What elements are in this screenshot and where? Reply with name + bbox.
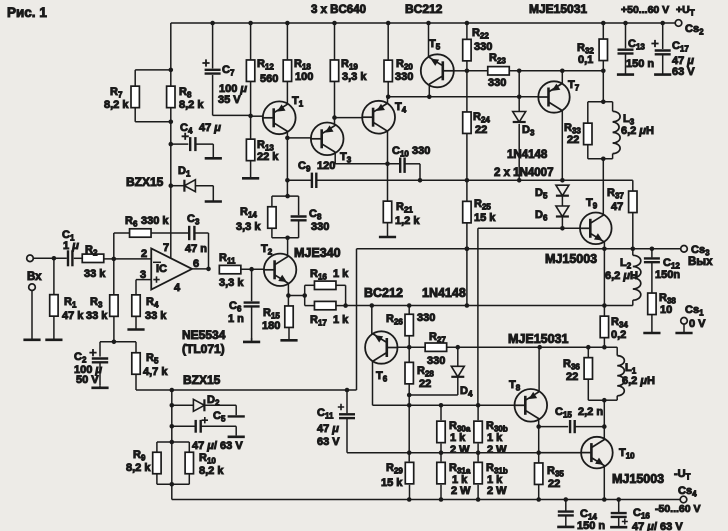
svg-text:22: 22 — [566, 371, 578, 383]
svg-text:1 n: 1 n — [228, 313, 244, 325]
svg-text:330 k: 330 k — [141, 215, 169, 227]
svg-text:120: 120 — [317, 160, 335, 172]
svg-text:MJE15031: MJE15031 — [508, 332, 569, 346]
svg-text:150 n: 150 n — [626, 58, 654, 70]
svg-text:100: 100 — [295, 71, 313, 83]
svg-text:15 k: 15 k — [381, 477, 403, 489]
svg-text:1N4148: 1N4148 — [422, 286, 466, 300]
svg-text:Вых: Вых — [688, 256, 713, 268]
svg-text:MJ15003: MJ15003 — [545, 252, 597, 266]
svg-text:6,2 μH: 6,2 μH — [622, 375, 655, 387]
svg-text:1,2 k: 1,2 k — [395, 215, 420, 227]
svg-text:2 W: 2 W — [450, 444, 470, 456]
svg-text:150 n: 150 n — [577, 520, 605, 531]
svg-text:8,2 k: 8,2 k — [179, 99, 204, 111]
svg-text:BZX15: BZX15 — [183, 373, 221, 387]
svg-text:47: 47 — [611, 201, 623, 213]
svg-text:1 k: 1 k — [487, 432, 503, 444]
svg-text:BC212: BC212 — [405, 2, 443, 16]
svg-text:MJE15031: MJE15031 — [529, 2, 587, 16]
svg-text:50 V: 50 V — [76, 374, 99, 386]
svg-text:Рис. 1: Рис. 1 — [7, 5, 47, 20]
svg-text:2 W: 2 W — [487, 444, 507, 456]
svg-text:47 n: 47 n — [185, 243, 207, 255]
svg-text:8,2 k: 8,2 k — [199, 465, 224, 477]
svg-text:33 k: 33 k — [86, 310, 108, 322]
svg-text:0 V: 0 V — [689, 318, 706, 330]
svg-text:Вх: Вх — [27, 271, 42, 283]
svg-text:BZX15: BZX15 — [126, 175, 164, 189]
svg-text:3,3 k: 3,3 k — [342, 71, 367, 83]
svg-text:3: 3 — [140, 269, 146, 281]
svg-text:3 x BC640: 3 x BC640 — [311, 4, 366, 16]
svg-text:22: 22 — [548, 478, 560, 490]
svg-text:1 k: 1 k — [333, 314, 349, 326]
svg-text:22: 22 — [567, 134, 579, 146]
svg-text:BC212: BC212 — [364, 286, 403, 300]
svg-text:10: 10 — [660, 304, 672, 316]
svg-text:150n: 150n — [655, 269, 680, 281]
svg-text:8,2 k: 8,2 k — [126, 462, 151, 474]
svg-text:330: 330 — [395, 71, 413, 83]
svg-text:(TL071): (TL071) — [182, 342, 225, 356]
svg-text:0,1: 0,1 — [578, 54, 593, 66]
svg-text:MJ15003: MJ15003 — [612, 472, 664, 486]
svg-text:4: 4 — [174, 282, 181, 294]
svg-text:330: 330 — [488, 77, 506, 89]
svg-text:47 μ: 47 μ — [317, 423, 339, 435]
svg-text:33 k: 33 k — [145, 310, 167, 322]
svg-text:2,2 n: 2,2 n — [578, 406, 603, 418]
svg-text:-50...60 V: -50...60 V — [655, 503, 701, 515]
svg-text:22: 22 — [419, 378, 431, 390]
svg-text:MJE340: MJE340 — [294, 246, 341, 260]
svg-text:47 k: 47 k — [62, 310, 84, 322]
svg-text:2 W: 2 W — [451, 485, 471, 497]
svg-text:4,7 k: 4,7 k — [143, 366, 168, 378]
svg-text:330: 330 — [427, 355, 445, 367]
svg-text:IC: IC — [156, 263, 167, 275]
svg-text:2 x 1N4007: 2 x 1N4007 — [494, 167, 553, 179]
svg-text:1 μ: 1 μ — [63, 240, 79, 252]
svg-text:+50...60 V: +50...60 V — [621, 4, 669, 16]
svg-text:6: 6 — [193, 258, 199, 270]
svg-text:2: 2 — [141, 248, 147, 260]
svg-text:1 k: 1 k — [450, 432, 466, 444]
svg-text:8,2 k: 8,2 k — [104, 99, 129, 111]
svg-text:1N4148: 1N4148 — [507, 149, 548, 161]
svg-text:2 W: 2 W — [487, 485, 507, 497]
svg-text:180: 180 — [262, 320, 280, 332]
svg-text:3,3 k: 3,3 k — [219, 277, 244, 289]
svg-text:6,2 μH: 6,2 μH — [621, 125, 654, 137]
svg-text:63 V: 63 V — [317, 436, 340, 448]
svg-text:7: 7 — [163, 242, 169, 254]
svg-text:6,2 μH: 6,2 μH — [605, 270, 638, 282]
svg-text:330: 330 — [417, 312, 435, 324]
svg-text:1 k: 1 k — [333, 268, 349, 280]
svg-text:63 V: 63 V — [672, 66, 695, 78]
svg-text:15 k: 15 k — [474, 212, 496, 224]
svg-text:22: 22 — [475, 124, 487, 136]
svg-text:560: 560 — [260, 73, 278, 85]
svg-text:NE5534: NE5534 — [182, 328, 226, 342]
svg-text:47 μ/ 63 V: 47 μ/ 63 V — [192, 440, 243, 452]
svg-text:330: 330 — [412, 145, 430, 157]
svg-text:22 k: 22 k — [257, 151, 279, 163]
svg-text:0,2: 0,2 — [611, 329, 626, 341]
svg-text:330: 330 — [311, 221, 329, 233]
svg-text:47 μ: 47 μ — [199, 122, 221, 134]
svg-text:47 μ/ 63 V: 47 μ/ 63 V — [632, 521, 683, 531]
svg-text:33 k: 33 k — [84, 268, 106, 280]
svg-text:3,3 k: 3,3 k — [236, 221, 261, 233]
svg-text:35 V: 35 V — [218, 94, 241, 106]
